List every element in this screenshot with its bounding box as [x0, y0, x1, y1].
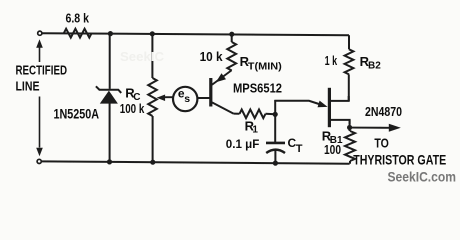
label CT: [288, 136, 303, 155]
wire UJT emitter: [274, 101, 327, 108]
wire zener branch upper: [109, 34, 111, 89]
svg-text:TO: TO: [374, 136, 389, 151]
potentiometer RC 100k: [148, 78, 157, 116]
terminal bottom-left: [37, 159, 41, 163]
bottom rail wire: [42, 161, 350, 163]
potentiometer wiper arrow: [157, 95, 174, 102]
terminal top-left: [38, 31, 42, 35]
svg-text:T: T: [296, 143, 303, 155]
label RC: [125, 86, 140, 103]
node bottom CT junction: [273, 161, 278, 166]
svg-text:SeekIC.com: SeekIC.com: [388, 169, 457, 184]
wire gate arrow: [350, 124, 401, 132]
label RT(MIN): [240, 54, 282, 73]
wire zener branch lower: [109, 103, 111, 162]
node top RT junction: [229, 32, 234, 37]
node top zener junction: [108, 31, 113, 36]
node R1/CT junction: [273, 112, 278, 117]
svg-text:6.8 k: 6.8 k: [66, 11, 90, 26]
source es circle: [173, 87, 197, 111]
svg-text:B2: B2: [368, 61, 381, 72]
wire CT branch vertical: [274, 100, 276, 142]
rectified-line double arrow: [36, 39, 43, 156]
wire RT top lead: [231, 34, 233, 42]
wire 1k top lead: [348, 35, 350, 49]
node top Rc junction: [150, 31, 155, 36]
label RB1: [322, 129, 343, 147]
resistor RT(MIN) 10k: [227, 42, 236, 71]
label es: [178, 87, 190, 105]
svg-text:0.1 μF: 0.1 μF: [226, 139, 259, 151]
svg-text:2N4870: 2N4870: [365, 104, 402, 119]
zener diode D1 1N5250A: [96, 86, 121, 103]
resistor 6.8k: [64, 29, 92, 38]
wire B2 vertical: [348, 74, 350, 101]
svg-text:1: 1: [252, 125, 258, 136]
svg-text:10 k: 10 k: [200, 49, 224, 64]
top rail wire: [42, 33, 349, 35]
svg-text:MPS6512: MPS6512: [233, 81, 282, 96]
svg-text:100 k: 100 k: [120, 101, 145, 116]
wire R1 right lead: [266, 113, 276, 115]
node gate junction: [347, 125, 352, 130]
wire Rc branch upper: [151, 34, 153, 78]
svg-text:LINE: LINE: [16, 79, 40, 93]
unijunction transistor Q2 2N4870: [329, 88, 349, 127]
wire base es to Q1: [197, 97, 209, 99]
label RB2: [360, 54, 382, 72]
resistor RB2 1k: [345, 49, 354, 74]
resistor RB1 100: [345, 131, 355, 161]
svg-text:1 k: 1 k: [325, 53, 338, 68]
wire RB1 bottom lead: [349, 161, 351, 164]
svg-text:s: s: [184, 93, 190, 105]
node bottom zener junction: [107, 159, 112, 164]
label R1: [245, 118, 259, 135]
resistor R1: [240, 110, 266, 119]
svg-text:RECTIFIED: RECTIFIED: [16, 64, 68, 78]
capacitor CT 0.1uF: [266, 143, 285, 163]
svg-text:THYRISTOR GATE: THYRISTOR GATE: [353, 152, 446, 168]
wire B1 vertical: [349, 120, 351, 131]
transistor Q1 MPS6512: [211, 70, 234, 113]
wire Rc branch lower: [152, 116, 154, 162]
node bottom Rc junction: [150, 160, 155, 165]
wire R1 left lead: [234, 113, 240, 115]
svg-text:SeekIC: SeekIC: [120, 50, 164, 64]
svg-text:1N5250A: 1N5250A: [54, 106, 100, 121]
svg-text:T(MIN): T(MIN): [248, 61, 282, 73]
label RECTIFIED LINE: [16, 64, 68, 94]
svg-text:100: 100: [324, 142, 341, 157]
